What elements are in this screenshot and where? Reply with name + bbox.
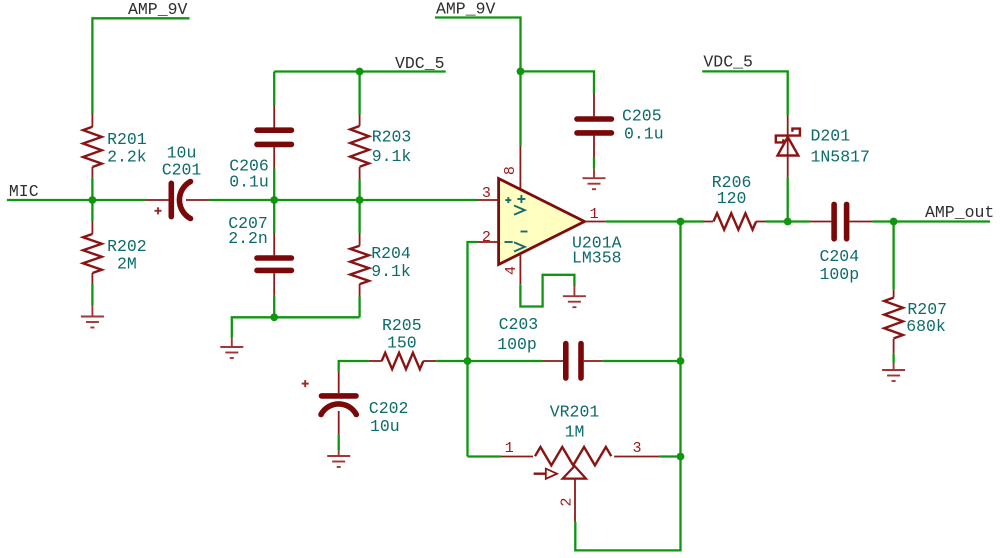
- wire output to R206: [681, 220, 704, 222]
- ground left of C207: [220, 338, 243, 358]
- diode D201 schottky: [776, 115, 870, 177]
- resistor R203: [350, 72, 411, 201]
- svg-text:0.1u: 0.1u: [229, 172, 269, 191]
- svg-text:MIC: MIC: [9, 182, 39, 201]
- ground under R202: [81, 305, 104, 328]
- node VDC_5 rail: [356, 68, 364, 76]
- capacitor C201 polarized: [146, 144, 209, 219]
- svg-text:2M: 2M: [117, 255, 137, 274]
- svg-text:4: 4: [503, 266, 520, 275]
- svg-text:9.1k: 9.1k: [371, 262, 411, 281]
- op-amp U201A: [499, 179, 622, 268]
- node V+ rail: [517, 68, 525, 76]
- svg-text:150: 150: [387, 334, 417, 353]
- wire AMP_9V middle down to rail: [435, 18, 521, 72]
- svg-text:R204: R204: [371, 244, 411, 263]
- svg-text:AMP_9V: AMP_9V: [128, 0, 188, 19]
- wire feedback vertical right: [575, 222, 680, 551]
- node C206/C207 tap: [270, 196, 278, 204]
- svg-text:R205: R205: [382, 316, 422, 335]
- svg-text:1: 1: [505, 440, 514, 457]
- svg-text:2: 2: [558, 497, 575, 506]
- wire pot pin3 to vertical: [659, 455, 680, 457]
- svg-text:3: 3: [633, 440, 642, 457]
- resistor R204: [350, 200, 411, 317]
- wire output: [606, 220, 681, 222]
- svg-text:C204: C204: [819, 247, 859, 266]
- svg-text:AMP_out: AMP_out: [925, 203, 994, 222]
- svg-text:VDC_5: VDC_5: [395, 54, 445, 73]
- node feedback left: [464, 357, 472, 365]
- wire pot pin1: [468, 455, 502, 457]
- svg-text:R203: R203: [372, 128, 412, 147]
- svg-text:C202: C202: [369, 399, 409, 418]
- svg-text:9.1k: 9.1k: [372, 147, 412, 166]
- svg-text:1N5817: 1N5817: [811, 148, 870, 167]
- svg-text:D201: D201: [811, 127, 851, 146]
- ground under R207: [882, 363, 905, 381]
- wire C201 to C206 node: [209, 199, 477, 201]
- wire R205 elbow: [339, 361, 369, 372]
- svg-text:2: 2: [482, 229, 491, 246]
- svg-text:C205: C205: [622, 107, 662, 126]
- wire AMP_9V left underline: [92, 18, 189, 114]
- svg-text:1M: 1M: [565, 422, 585, 441]
- resistor R202: [83, 200, 147, 305]
- svg-text:2.2k: 2.2k: [107, 148, 147, 167]
- svg-text:1: 1: [590, 206, 599, 223]
- wire AMP_out: [894, 220, 990, 222]
- svg-text:100p: 100p: [819, 265, 859, 284]
- wire V+ rail to C205: [521, 71, 595, 94]
- svg-text:2.2n: 2.2n: [228, 229, 268, 248]
- svg-text:3: 3: [482, 185, 491, 202]
- svg-text:LM358: LM358: [572, 249, 622, 268]
- svg-text:VDC_5: VDC_5: [703, 52, 753, 71]
- svg-text:8: 8: [502, 166, 519, 175]
- node output: [677, 218, 685, 226]
- op-amp U1 pin 8: [519, 146, 521, 191]
- capacitor C205: [577, 94, 664, 169]
- node MIC junction: [89, 196, 97, 204]
- node C207 bottom: [270, 313, 278, 321]
- svg-text:R202: R202: [107, 237, 147, 256]
- pin 1: [585, 221, 606, 223]
- capacitor C202 polarized: [302, 372, 409, 451]
- svg-text:100p: 100p: [497, 335, 537, 354]
- resistor R207: [884, 222, 947, 363]
- svg-text:680k: 680k: [906, 317, 946, 336]
- node D201 anode: [784, 218, 792, 226]
- ground under C202: [327, 450, 350, 467]
- wire feedback node to C203: [468, 360, 543, 362]
- svg-text:C203: C203: [499, 315, 539, 334]
- capacitor C207: [228, 200, 291, 317]
- svg-text:VR201: VR201: [550, 403, 600, 422]
- pin 2: [477, 241, 499, 243]
- node C203 right: [677, 357, 685, 365]
- node AMP_out: [890, 218, 898, 226]
- capacitor C203: [497, 315, 680, 378]
- wire D201 to output row: [787, 177, 789, 221]
- wire pin4 to ground jog: [520, 275, 574, 307]
- svg-text:R201: R201: [107, 130, 147, 149]
- svg-text:AMP_9V: AMP_9V: [436, 0, 496, 19]
- svg-text:120: 120: [717, 189, 747, 208]
- wire pin8 from rail: [519, 71, 521, 146]
- pin 4: [519, 254, 521, 285]
- capacitor C206: [229, 72, 291, 201]
- wire D201 node to C204: [788, 220, 810, 222]
- resistor R201: [83, 114, 147, 200]
- resistor R206: [703, 173, 788, 230]
- wire C207 row: [232, 317, 360, 337]
- wire VDC_5 rail: [274, 70, 446, 72]
- pin 3: [477, 199, 499, 201]
- ground under C205: [583, 169, 606, 190]
- svg-text:0.1u: 0.1u: [624, 125, 664, 144]
- wire MIC to node: [7, 199, 146, 201]
- resistor R205: [369, 316, 468, 369]
- node R203/R204 tap: [356, 196, 364, 204]
- wire pin2 elbow down: [468, 242, 478, 457]
- node pot pin3: [677, 453, 685, 461]
- svg-text:C201: C201: [162, 161, 202, 180]
- potentiometer VR201: [501, 403, 659, 522]
- capacitor C204: [809, 204, 893, 284]
- svg-text:10u: 10u: [370, 417, 400, 436]
- wire VDC_5 right to D201: [702, 71, 788, 115]
- ground pin4 net: [563, 286, 586, 307]
